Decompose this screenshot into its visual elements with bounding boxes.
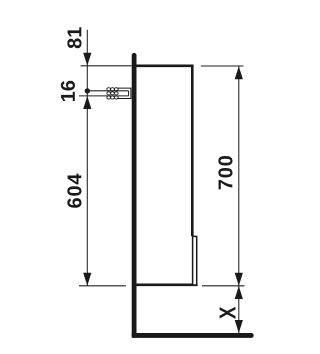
extension line top left (81, 65, 132, 67)
arrow up at lower screw line (16/604 dim) (83, 96, 91, 109)
cabinet right edge (191, 65, 194, 237)
wall (132, 55, 137, 335)
arrow down right bottom (700 dim) (235, 273, 243, 286)
label 700 (218, 156, 232, 189)
wall plug body (117, 88, 131, 98)
dimension line right 700 (238, 66, 240, 286)
extension line bottom right (202, 285, 245, 287)
wall-floor corner (132, 333, 137, 338)
arrow up (X dim top) (235, 286, 243, 299)
screw tip tick (128, 91, 130, 96)
cabinet top edge (136, 65, 193, 68)
label 81 (67, 27, 81, 48)
arrow down at cabinet top (81 dim) (83, 53, 91, 66)
arrow down at floor (X dim bottom) (235, 320, 243, 333)
dimension line left (86, 30, 88, 286)
wall plug ribs row middle (107, 92, 118, 95)
node: screw reference dot (85, 88, 90, 93)
wall plug ribs row top (107, 88, 118, 91)
extension line bottom left (79, 285, 126, 287)
screw axis line upper (87, 90, 128, 92)
wall plug ribs row bottom (107, 96, 118, 99)
door front panel (193, 236, 197, 285)
label 604 (67, 174, 81, 208)
screw axis line lower (79, 95, 129, 97)
cabinet bottom edge (136, 283, 197, 286)
dimension line right X (238, 286, 240, 333)
extension line top right (201, 65, 244, 67)
label 16 (61, 81, 75, 101)
floor (136, 333, 251, 338)
arrow down at cabinet bottom (604 dim) (83, 273, 91, 286)
arrow up right top (700 dim) (235, 66, 243, 79)
label X (220, 307, 236, 319)
